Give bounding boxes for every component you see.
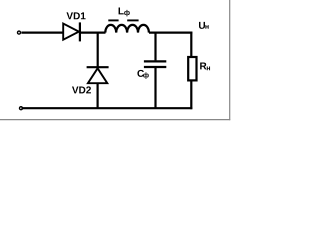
label U output — [199, 22, 205, 29]
input terminal bottom — [20, 107, 23, 110]
diode VD2 — [87, 67, 109, 83]
inductor L — [105, 25, 149, 33]
capacitor C — [144, 61, 166, 67]
frame right border — [229, 0, 231, 120]
label VD2 — [72, 86, 91, 93]
label VD1 — [66, 12, 85, 19]
input terminal top — [18, 31, 21, 34]
label C subscript f — [143, 72, 149, 79]
resistor R — [188, 57, 196, 80]
label C — [137, 70, 144, 77]
label U subscript n — [205, 25, 208, 29]
frame bottom border — [0, 119, 230, 121]
label L — [119, 8, 124, 15]
wire top rail to capacitor — [154, 33, 156, 61]
bottom rail wire — [21, 107, 192, 109]
wire inductor to output corner — [149, 31, 192, 33]
label R subscript n — [207, 67, 210, 71]
diode VD1 — [63, 22, 80, 41]
label L subscript f — [124, 10, 130, 17]
label R — [200, 63, 206, 70]
wire resistor to bottom rail — [190, 80, 192, 109]
wire capacitor to bottom rail — [154, 67, 156, 108]
node junction to VD2 — [97, 33, 99, 68]
wire terminal to VD1 anode — [21, 31, 63, 33]
wire VD1 cathode to inductor — [80, 31, 106, 33]
inductor core dashes — [108, 19, 138, 21]
wire corner down to resistor — [190, 32, 192, 57]
wire VD2 anode to bottom rail — [96, 83, 98, 108]
